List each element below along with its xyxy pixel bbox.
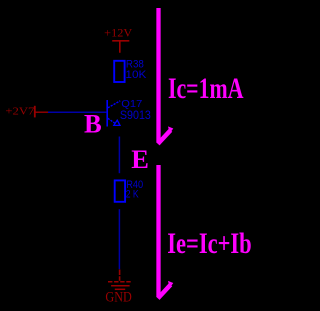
current arrow Ic (top magenta)	[158, 8, 173, 144]
svg-text:2 K: 2 K	[126, 188, 140, 200]
svg-text:B: B	[84, 108, 102, 138]
resistor R40 value label 2 K	[126, 188, 140, 200]
ground symbol	[108, 270, 132, 290]
svg-text:10K: 10K	[125, 69, 147, 81]
power bar symbol	[112, 41, 129, 53]
ground GND label	[105, 290, 131, 306]
svg-text:+2V7: +2V7	[5, 105, 35, 117]
node B label	[84, 108, 102, 138]
resistor R40	[115, 180, 125, 201]
resistor R38	[114, 61, 124, 82]
transistor Q17 designator label	[121, 98, 142, 110]
wire emitter (from transistor to R40)	[118, 137, 120, 174]
wire base (from +2V7 to transistor base)	[48, 111, 106, 113]
svg-text:S9013: S9013	[120, 108, 151, 122]
node +2V7 port pin bar	[34, 106, 36, 118]
transistor part number label S9013	[120, 108, 151, 122]
svg-text:+12V: +12V	[104, 26, 132, 40]
power +12V label	[104, 26, 132, 40]
node E label	[131, 144, 149, 174]
svg-text:Ic=1mA: Ic=1mA	[168, 72, 244, 105]
resistor R40 designator label	[126, 179, 143, 191]
transistor Q17 symbol	[107, 100, 120, 127]
current label Ic=1mA	[168, 72, 244, 105]
svg-text:GND: GND	[105, 290, 131, 306]
node +2V7 port label	[5, 105, 35, 117]
svg-text:E: E	[131, 144, 149, 174]
current label Ie=Ic+Ib	[167, 227, 251, 260]
node +2V7 port pin wire (red segment)	[36, 111, 49, 113]
current arrow Ie (bottom magenta)	[158, 165, 173, 298]
wire ground (from R40 to GND)	[118, 209, 120, 269]
resistor R38 value label 10K	[125, 69, 147, 81]
resistor R38 designator label	[126, 59, 144, 71]
svg-text:Ie=Ic+Ib: Ie=Ic+Ib	[167, 227, 251, 260]
